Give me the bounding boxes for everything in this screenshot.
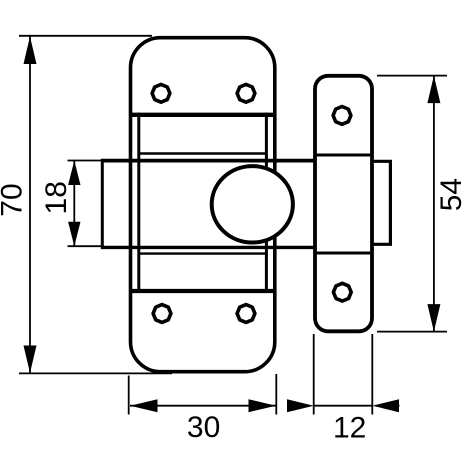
arrow 12 right outside: [372, 399, 399, 412]
arrow 54 top: [427, 76, 440, 104]
bolt bottom edge: [102, 246, 315, 249]
arrow 54 bottom: [427, 304, 440, 332]
extension line top (54): [377, 75, 447, 77]
hex screw strike bottom: [333, 283, 351, 301]
keeper box: [372, 161, 390, 244]
svg-text:12: 12: [333, 412, 366, 445]
leader 12 right: [390, 405, 400, 407]
body bottom band upper edge: [129, 289, 276, 293]
extension line left (30): [128, 376, 130, 415]
knob: [212, 166, 293, 242]
leader 12 left: [287, 405, 296, 407]
extension line top (18): [68, 160, 102, 162]
bolt left end: [101, 159, 104, 249]
dimension line 18: [73, 161, 75, 247]
extension line bottom (70): [19, 372, 172, 374]
svg-text:54: 54: [435, 178, 468, 211]
hex screw body bottom-left: [153, 305, 171, 323]
arrow 18 bottom: [68, 222, 80, 247]
arrow 30 left: [130, 399, 158, 412]
dimension line 12: [314, 405, 373, 407]
arrow 70 bottom: [24, 346, 37, 374]
strike plate outline: [315, 76, 372, 331]
left fold line: [137, 113, 140, 293]
extension line right (12): [371, 334, 373, 415]
arrow 12 left outside: [287, 399, 314, 412]
slot top edge: [139, 152, 267, 155]
hex screw body top-left: [152, 84, 170, 102]
extension line bottom (18): [68, 245, 102, 247]
body top band lower edge: [129, 113, 276, 117]
arrow 70 top: [24, 37, 37, 65]
hex screw strike top: [333, 107, 351, 125]
arrow 18 top: [68, 161, 80, 186]
lock body plate outline: [131, 38, 275, 372]
slot bottom edge: [139, 252, 267, 254]
svg-text:30: 30: [187, 411, 220, 444]
arrow 30 right: [249, 399, 277, 412]
extension line left (12): [313, 334, 315, 415]
bolt top edge: [102, 159, 315, 163]
extension line right (30): [275, 374, 277, 415]
hex screw body bottom-right: [237, 305, 255, 323]
right fold line: [265, 113, 268, 293]
dimension line 30: [130, 405, 276, 407]
strike slot top edge: [315, 154, 372, 157]
svg-text:70: 70: [0, 183, 28, 216]
dimension line 70: [29, 37, 31, 374]
strike slot bottom edge: [315, 252, 372, 255]
hex screw body top-right: [237, 84, 255, 102]
extension line bottom (54): [377, 331, 447, 333]
extension line top (70): [19, 35, 152, 37]
dimension line 54: [433, 76, 435, 332]
svg-text:18: 18: [40, 181, 73, 214]
